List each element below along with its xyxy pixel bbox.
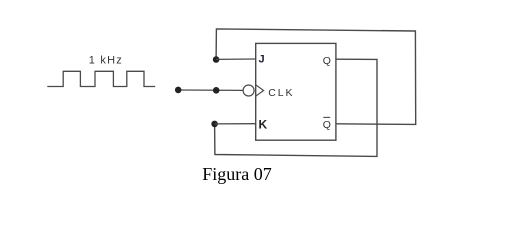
svg-text:1 kHz: 1 kHz [89,55,123,67]
svg-text:Figura 07: Figura 07 [202,164,271,184]
node junction at K input [211,121,218,128]
svg-text:Q: Q [323,55,331,67]
wire feedback Q to K [215,59,377,156]
svg-text:J: J [259,54,265,66]
svg-text:K: K [259,117,268,131]
svg-text:Q: Q [323,119,331,131]
node junction at J input [213,56,220,63]
overbar of Qbar [323,116,330,118]
clock waveform 1 kHz square wave [47,71,155,86]
CLK edge-trigger triangle [256,85,264,96]
node clock input terminal [175,87,182,94]
flip-flop U1 body [256,43,336,140]
wire J input [216,58,256,60]
CLK inversion bubble [243,85,254,96]
svg-text:CLK: CLK [268,87,294,99]
wire K input [215,123,256,125]
wire feedback Qbar to J [216,29,416,125]
node junction on CLK wire [213,87,220,94]
wire CLK input [178,89,243,91]
